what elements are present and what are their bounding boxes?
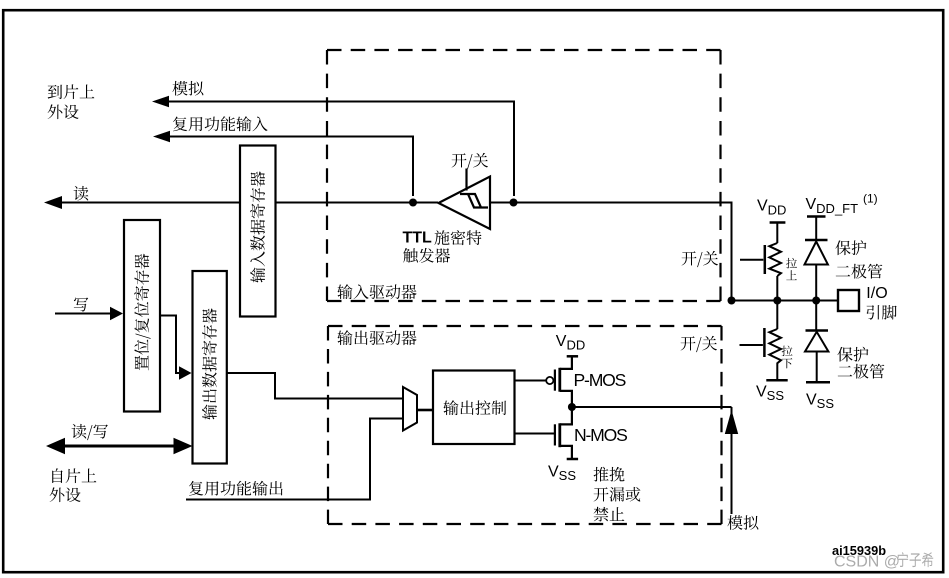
watermark 宁子希 — [897, 552, 933, 567]
label 输出驱动器 — [337, 330, 416, 345]
label 触发器 — [403, 248, 450, 263]
label 输出控制 — [443, 400, 506, 415]
label 二极管 (bottom) — [838, 364, 885, 379]
label 保护 (bottom) — [837, 347, 868, 362]
arrowhead analog up — [725, 410, 738, 434]
svg-text:VSS: VSS — [756, 383, 784, 403]
label from-on-chip-peripheral 自片上 — [52, 468, 96, 483]
label 推挽 — [594, 467, 625, 482]
protection diode D1 (to VDD_FT) — [805, 217, 828, 301]
label 二极管 (top) — [836, 264, 883, 279]
arrowhead analog-in — [152, 96, 169, 108]
label 读 — [74, 186, 89, 201]
input data register box 输入数据寄存器 — [240, 146, 276, 317]
pull-up VDD bar — [770, 221, 786, 224]
wire analog (bottom 模拟) — [731, 407, 733, 514]
wire schmitt output to I/O column — [490, 203, 732, 301]
node junction P/N drains — [568, 403, 576, 411]
wire alternate-function-input (复用功能输入) — [167, 137, 413, 197]
label 复用功能输入 — [173, 116, 268, 131]
label 写 — [74, 297, 89, 311]
output data register box 输出数据寄存器 — [193, 271, 227, 464]
label 拉下 — [782, 346, 793, 357]
wire alternate-function-output (复用功能输出) — [186, 419, 403, 500]
label 拉上 — [786, 258, 797, 269]
label 复用功能输出 — [189, 481, 283, 496]
label to-on-chip-peripheral 到片上外设 — [48, 84, 95, 99]
label 禁止 — [594, 507, 625, 522]
wire on/off control to schmitt trigger — [465, 169, 467, 191]
label 开/关 (schmitt) — [452, 153, 488, 169]
arrowhead read — [44, 196, 62, 209]
wire output data register to mux — [227, 373, 403, 399]
resistor pull-up (拉上) with switch gate — [740, 224, 781, 301]
wire analog-in (top 模拟) — [166, 102, 514, 197]
svg-text:VDD: VDD — [757, 198, 786, 218]
label 输出数据寄存器 (rotated) — [202, 308, 217, 419]
wire output control to N-MOS gate — [515, 433, 555, 435]
mux trapezoid (output selector) — [403, 387, 417, 431]
svg-text:VSS: VSS — [548, 463, 576, 483]
label 模拟 (top) — [172, 81, 203, 96]
P-MOS gate bubble — [546, 377, 553, 384]
output driver dashed box 输出驱动器 — [328, 326, 722, 524]
bit set/reset register box 置位/复位寄存器 — [124, 220, 160, 412]
node junction diodes — [812, 297, 820, 305]
svg-text:I/O: I/O — [866, 285, 887, 302]
output control box 输出控制 — [433, 371, 515, 445]
label to-on-chip-peripheral line2 外设 — [48, 104, 79, 119]
TTL schmitt trigger U1 triangle — [439, 177, 491, 230]
arrowhead write — [110, 307, 123, 320]
I/O pin square — [838, 290, 859, 311]
svg-text:VDD: VDD — [556, 333, 585, 353]
resistor pull-down (拉下) with switch gate — [740, 301, 788, 381]
label 保护 (top) — [835, 240, 866, 255]
arrowhead read/write right — [174, 438, 193, 454]
label 开漏或 — [594, 487, 641, 502]
input driver dashed box 输入驱动器 — [327, 50, 721, 301]
svg-text:VSS: VSS — [806, 391, 834, 411]
node junction on read line (AF input tap) — [409, 199, 417, 207]
svg-text:TTL: TTL — [403, 230, 433, 247]
wire mux to output control — [417, 409, 433, 412]
label 引脚 — [867, 305, 897, 320]
arrowhead into output data register — [179, 366, 192, 379]
wire read (读) — [60, 202, 438, 204]
wire output control to P-MOS gate — [515, 380, 547, 382]
transistor P-MOS — [555, 356, 578, 407]
node junction I/O column — [728, 297, 736, 305]
label 开/关 (pull-down) — [681, 336, 717, 352]
wire write (写) — [55, 313, 112, 315]
schmitt hysteresis symbol — [460, 194, 488, 208]
node junction pull-up/down — [773, 297, 781, 305]
wire read/write double arrow (读/写) — [60, 445, 181, 448]
arrowhead alternate-function-input — [153, 131, 170, 143]
label 输入驱动器 — [337, 284, 416, 299]
protection diode D2 (to VSS) — [805, 301, 830, 383]
arrowhead read/write left — [46, 438, 65, 454]
wire MOS output to I/O column — [572, 406, 732, 408]
node junction on read line (analog tap) — [510, 199, 518, 207]
svg-text:VDD_FT: VDD_FT — [806, 196, 859, 216]
svg-text:P-MOS: P-MOS — [574, 370, 626, 390]
wire set/reset to output data register — [160, 316, 180, 374]
label 开/关 (pull-up) — [682, 251, 718, 267]
svg-text:(1): (1) — [863, 192, 878, 206]
transistor N-MOS — [555, 407, 578, 459]
label 施密特 — [435, 230, 482, 245]
svg-text:CSDN @: CSDN @ — [834, 554, 900, 571]
label 模拟 (bottom) — [727, 515, 758, 530]
wire I/O main line — [732, 300, 839, 302]
svg-text:N-MOS: N-MOS — [574, 425, 627, 445]
label 置位/复位寄存器 (rotated) — [134, 254, 151, 370]
label 读/写 — [72, 424, 108, 440]
label from-on-chip-peripheral 外设 — [50, 487, 81, 502]
label 输入数据寄存器 (rotated) — [250, 171, 265, 282]
